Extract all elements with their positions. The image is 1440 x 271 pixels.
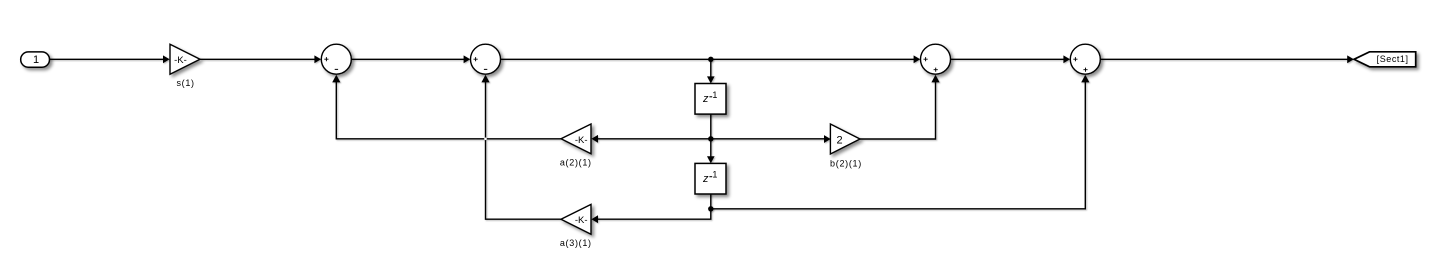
- sum S1: [321, 44, 351, 74]
- wire: [598, 138, 711, 140]
- arrowhead into gain s(1): [163, 55, 170, 63]
- wire: [711, 138, 825, 140]
- svg-text:-K-: -K-: [575, 215, 588, 226]
- input port 1: [21, 52, 50, 67]
- wire: [486, 81, 562, 219]
- wire: [860, 81, 936, 139]
- junction dot on main line: [708, 57, 713, 62]
- wire: [501, 58, 914, 60]
- svg-text:2: 2: [836, 135, 842, 147]
- arrowhead into goto tag: [1347, 55, 1354, 63]
- junction dot row A: [708, 136, 713, 141]
- unit delay Z2: [695, 163, 726, 194]
- wire: [598, 209, 711, 219]
- wire: [951, 58, 1064, 60]
- arrowhead into gain b(2)(1): [824, 135, 831, 143]
- svg-text:-K-: -K-: [174, 55, 187, 66]
- wire: [710, 139, 712, 158]
- svg-text:[Sect1]: [Sect1]: [1377, 54, 1409, 64]
- arrowhead into sum S1: [314, 55, 321, 63]
- arrowhead into sum S4: [1063, 55, 1070, 63]
- goto tag [Sect1]: [1354, 52, 1416, 67]
- svg-text:s(1): s(1): [176, 78, 194, 88]
- svg-text:1: 1: [712, 170, 717, 180]
- wire: [710, 59, 712, 77]
- svg-text:a(3)(1): a(3)(1): [560, 238, 592, 248]
- wire: [710, 114, 712, 139]
- sum S2: [471, 44, 501, 74]
- wire: [710, 194, 712, 209]
- svg-text:1: 1: [33, 54, 39, 66]
- wire: [50, 58, 164, 60]
- wire: [711, 81, 1086, 209]
- svg-text:b(2)(1): b(2)(1): [830, 158, 862, 168]
- svg-text:z: z: [702, 93, 709, 105]
- sum S3: [921, 44, 951, 74]
- sum S4: [1070, 44, 1100, 74]
- svg-text:z: z: [702, 173, 709, 185]
- gain a(3)(1): [561, 204, 591, 234]
- arrowhead into gain a(2)(1): [591, 135, 598, 143]
- arrowhead into sum S4 bottom: [1081, 75, 1089, 83]
- svg-text:1: 1: [712, 90, 717, 100]
- gain a(2)(1): [561, 124, 591, 154]
- arrowhead into gain a(3)(1): [591, 215, 598, 223]
- arrowhead into sum S1 bottom: [332, 75, 340, 83]
- arrowhead into sum S2 bottom: [481, 75, 489, 83]
- wire: [1101, 58, 1348, 60]
- svg-text:a(2)(1): a(2)(1): [560, 158, 592, 168]
- wire: [200, 58, 315, 60]
- gain s(1): [170, 44, 200, 74]
- svg-text:-K-: -K-: [575, 135, 588, 146]
- junction dot row B: [708, 206, 713, 211]
- wire: [352, 58, 464, 60]
- gain b(2)(1): [830, 124, 860, 154]
- arrowhead into delay Z2 top: [707, 156, 715, 163]
- arrowhead into sum S2: [464, 55, 471, 63]
- crossover gap at (485.5,138.8): [484, 138, 487, 141]
- wire: [336, 81, 561, 139]
- unit delay Z1: [695, 84, 726, 115]
- arrowhead into delay Z1 top: [707, 76, 715, 83]
- arrowhead into sum S3: [914, 55, 921, 63]
- arrowhead into sum S3 bottom: [931, 75, 939, 83]
